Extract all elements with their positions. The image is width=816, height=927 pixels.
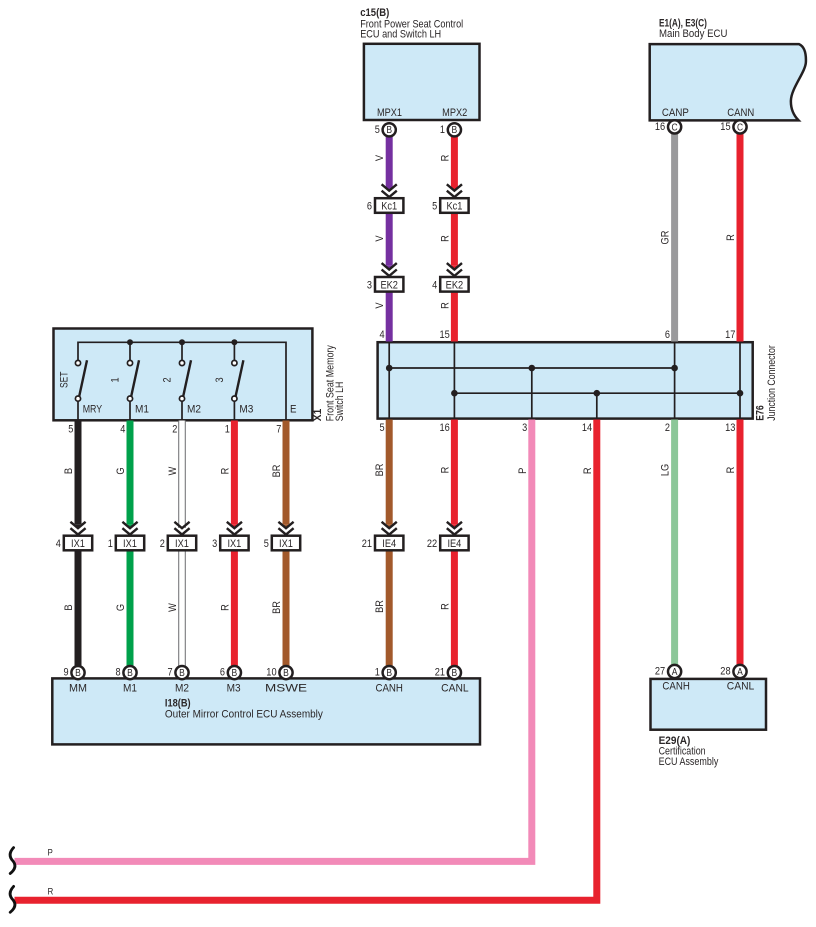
pin label CANH on I18 [375, 683, 403, 695]
label switch 3 vertical [214, 377, 226, 382]
svg-text:CANL: CANL [727, 680, 755, 692]
svg-text:BR: BR [374, 600, 386, 613]
ECU box E29(A) Certification ECU Assembly [651, 679, 767, 730]
wire R MPX2 to Kc1 [451, 131, 458, 192]
wire V Kc1 to EK2 [386, 213, 393, 271]
wire label V at y305.5 [374, 302, 386, 309]
wire label R at y607.5 [219, 604, 231, 611]
junction dot E76 pin3 [529, 365, 536, 372]
wire R Kc1 to EK2 [451, 213, 458, 271]
svg-text:5: 5 [432, 201, 437, 213]
label X1 vertical [312, 409, 324, 422]
ECU box c15(B) Front Power Seat Control ECU and Switch LH [364, 44, 480, 120]
wire B IX1 to I18 pin MM [75, 550, 82, 672]
wire label BR CANH at y607.5 [374, 600, 386, 613]
svg-text:Main Body ECU: Main Body ECU [659, 28, 727, 40]
pin number 14 E76 bottom [582, 422, 592, 434]
svg-text:1: 1 [110, 377, 122, 382]
svg-text:7: 7 [168, 667, 173, 679]
E76 internal vertical pin4-pin5 [388, 343, 390, 418]
wire V EK2 to E76 pin 4 [386, 292, 393, 342]
svg-text:6: 6 [665, 329, 670, 341]
svg-text:IX1: IX1 [279, 538, 293, 550]
pin number 5 E76 bottom [380, 422, 385, 434]
pin label M2 on X1 [187, 404, 201, 416]
label switch 1 vertical [110, 377, 122, 382]
pin 6 (B) of I18 [220, 666, 241, 679]
junction dot E76 pin16 [451, 390, 458, 397]
svg-text:A: A [672, 667, 678, 678]
svg-text:B: B [63, 604, 75, 610]
wire label R CANL at y607.5 [439, 603, 451, 610]
wire label R long [582, 467, 594, 474]
pin label E on X1 [290, 404, 297, 416]
svg-text:BR: BR [271, 465, 283, 478]
pin 16 (C) of E1 [655, 120, 681, 133]
svg-text:W: W [167, 603, 179, 612]
svg-text:21: 21 [435, 667, 445, 679]
svg-text:27: 27 [655, 666, 665, 678]
E76 internal vertical pin15-pin16 [453, 343, 455, 418]
wire label B at y471 [63, 468, 75, 474]
svg-text:G: G [115, 467, 127, 474]
wire R E76 pin 13 to E29 pin CANL [737, 420, 744, 669]
svg-text:28: 28 [720, 666, 730, 678]
svg-text:M2: M2 [175, 683, 189, 695]
label c15(B) title [360, 7, 463, 41]
svg-text:B: B [63, 468, 75, 474]
svg-text:15: 15 [440, 329, 450, 341]
switch 1 [127, 342, 139, 419]
pin number 1 X1 [225, 423, 230, 435]
wire LG E76 pin 2 to E29 pin CANH [671, 420, 678, 669]
label SET vertical [58, 371, 70, 388]
pin label MPX1 [377, 107, 402, 119]
svg-text:1: 1 [225, 423, 230, 435]
pin number 13 E76 bottom [725, 422, 735, 434]
svg-text:5: 5 [375, 124, 380, 136]
svg-text:ECU and Switch LH: ECU and Switch LH [360, 29, 441, 41]
E76 internal bus CANL [454, 392, 740, 394]
svg-text:V: V [374, 154, 386, 161]
svg-text:V: V [374, 302, 386, 309]
label Junction Connector vertical [766, 345, 778, 421]
label E1(A), E3(C) title [659, 17, 727, 40]
wire R EK2 to E76 pin 15 [451, 292, 458, 342]
connector EK2 pin 3 [367, 277, 404, 292]
connector IX1 pin 1 [108, 536, 144, 551]
label E76 vertical [755, 405, 767, 421]
pin label M3 on X1 [239, 404, 253, 416]
junction dot above switch 2 [179, 339, 185, 345]
wire label R CANN [725, 234, 737, 241]
pin label M2 on I18 [175, 683, 189, 695]
arrow into IX1 on wire BR [278, 522, 293, 536]
wire R IX1 to I18 pin M3 [231, 550, 238, 672]
wire label G at y471 [115, 467, 127, 474]
E76 internal vertical pin17-pin13 [739, 343, 741, 418]
svg-text:R: R [439, 302, 451, 309]
svg-text:MPX2: MPX2 [442, 107, 467, 119]
svg-text:IX1: IX1 [123, 538, 137, 550]
svg-text:C: C [737, 122, 743, 133]
ECU box E1(A) E3(C) Main Body ECU with torn right edge [650, 44, 806, 120]
svg-text:5: 5 [68, 423, 73, 435]
junction dot above switch 1 [127, 339, 133, 345]
pin 15 (C) of E1 [720, 120, 746, 133]
wire GR CANP to E76 pin 6 [671, 128, 678, 342]
svg-text:CANH: CANH [375, 683, 403, 695]
arrow into IE4 right [447, 522, 462, 536]
svg-text:16: 16 [440, 422, 450, 434]
svg-text:M3: M3 [239, 404, 253, 416]
pin label CANH on E29 [662, 680, 690, 692]
pin 10 (B) of I18 [266, 666, 292, 679]
svg-text:M1: M1 [135, 404, 149, 416]
connector IX1 pin 4 [56, 536, 93, 551]
svg-text:R: R [439, 235, 451, 242]
wire G IX1 to I18 pin M1 [127, 550, 134, 672]
pin 21 (B) of I18 CANL [435, 666, 461, 679]
connector Kc1 pin 6 [367, 198, 404, 213]
switch SET [75, 360, 87, 419]
svg-text:CANP: CANP [662, 107, 689, 119]
pin label M1 on X1 [135, 404, 149, 416]
svg-text:15: 15 [720, 121, 730, 133]
svg-text:Kc1: Kc1 [381, 201, 397, 213]
wire label W at y471 [167, 466, 179, 475]
svg-text:R: R [439, 467, 451, 474]
junction dot E76 pin4 [386, 365, 393, 372]
svg-text:22: 22 [427, 538, 437, 550]
svg-text:Kc1: Kc1 [446, 201, 462, 213]
svg-text:LG: LG [660, 464, 672, 476]
wire label R at y238.5 [439, 235, 451, 242]
pin label CANN [727, 107, 754, 119]
pin 1 (B) of c15 [440, 123, 461, 136]
switch 3 [232, 342, 244, 419]
pin 5 (B) of c15 [375, 123, 396, 136]
label E29(A) title [659, 735, 719, 768]
pin number 5 X1 [68, 423, 73, 435]
svg-text:R: R [439, 603, 451, 610]
svg-text:8: 8 [116, 667, 121, 679]
junction dot above switch 3 [231, 339, 237, 345]
wire label P [517, 468, 529, 474]
svg-text:2: 2 [162, 377, 174, 382]
svg-text:1: 1 [108, 538, 113, 550]
wire R IE4 to I18 pin CANL [451, 550, 458, 672]
svg-text:MRY: MRY [83, 404, 103, 416]
arrow into EK2 right [447, 263, 462, 277]
pin label MSWE [265, 683, 307, 695]
svg-text:MSWE: MSWE [265, 683, 307, 695]
ECU box I18(B) Outer Mirror Control ECU Assembly [52, 678, 480, 744]
svg-text:M2: M2 [187, 404, 201, 416]
svg-text:P: P [517, 468, 529, 474]
break symbol on wire P [10, 848, 15, 874]
svg-text:2: 2 [172, 423, 177, 435]
E76 internal bus CANH [389, 367, 674, 369]
pin label CANP [662, 107, 689, 119]
pin number 16 E76 bottom [440, 422, 450, 434]
svg-text:Junction Connector: Junction Connector [766, 345, 778, 421]
pin label M3 on I18 [227, 683, 241, 695]
pin number 2 X1 [172, 423, 177, 435]
connector IX1 pin 3 [212, 536, 249, 551]
svg-text:EK2: EK2 [380, 279, 398, 291]
pin number 17 E76 top [725, 329, 735, 341]
wire label R at y305.5 [439, 302, 451, 309]
wire R E76 pin 16 to IE4 [451, 420, 458, 530]
svg-text:M1: M1 [123, 683, 137, 695]
wire label B at y607.5 [63, 604, 75, 610]
svg-text:5: 5 [264, 538, 269, 550]
svg-text:V: V [374, 235, 386, 242]
svg-text:R: R [725, 234, 737, 241]
connector Kc1 pin 5 [432, 198, 469, 213]
X1 internal bus wire [78, 342, 286, 419]
svg-text:6: 6 [367, 201, 372, 213]
svg-text:1: 1 [440, 124, 445, 136]
pin number 6 E76 top [665, 329, 670, 341]
svg-text:MPX1: MPX1 [377, 107, 402, 119]
svg-text:R: R [219, 468, 231, 475]
connector IE4 pin 22 [427, 536, 469, 551]
svg-text:14: 14 [582, 422, 592, 434]
svg-text:3: 3 [367, 279, 372, 291]
pin number 4 E76 top [380, 329, 385, 341]
svg-text:B: B [127, 668, 133, 679]
wire P E76 pin 3 run to left edge [15, 420, 532, 862]
svg-text:IX1: IX1 [227, 538, 241, 550]
svg-text:CANH: CANH [662, 680, 690, 692]
wire label GR [660, 231, 672, 245]
svg-text:CANL: CANL [441, 683, 469, 695]
svg-text:3: 3 [212, 538, 217, 550]
svg-text:1: 1 [375, 667, 380, 679]
pin label MPX2 [442, 107, 467, 119]
wire label R horizontal [48, 887, 54, 898]
svg-text:c15(B): c15(B) [360, 7, 389, 19]
svg-text:5: 5 [380, 422, 385, 434]
label switch 2 vertical [162, 377, 174, 382]
pin number 3 E76 bottom [522, 422, 527, 434]
svg-text:B: B [179, 668, 185, 679]
break symbol on wire R [10, 886, 15, 912]
wire label BR CANH at y471 [374, 464, 386, 477]
svg-text:B: B [75, 668, 81, 679]
wire R CANN to E76 pin 17 [737, 128, 744, 342]
svg-text:E76: E76 [755, 405, 767, 421]
svg-text:SET: SET [58, 371, 70, 388]
svg-text:BR: BR [271, 601, 283, 614]
E76 internal vertical to pin3 [531, 368, 533, 418]
wire W M2 to IX1 [179, 421, 186, 529]
arrow into IX1 on wire W [174, 522, 189, 536]
svg-text:P: P [48, 847, 53, 858]
svg-text:Outer Mirror Control ECU Assem: Outer Mirror Control ECU Assembly [165, 709, 323, 721]
connector IX1 pin 5 [264, 536, 301, 551]
svg-text:4: 4 [432, 279, 437, 291]
wire label BR at y607.5 [271, 601, 283, 614]
wire B MRY to IX1 [75, 421, 82, 530]
svg-text:B: B [452, 668, 458, 679]
svg-text:3: 3 [522, 422, 527, 434]
svg-text:ECU Assembly: ECU Assembly [659, 756, 719, 768]
svg-text:CANN: CANN [727, 107, 754, 119]
svg-text:21: 21 [362, 538, 372, 550]
wire R E76 pin 14 run to left edge [15, 420, 597, 901]
wire BR IX1 to I18 pin MSWE [283, 550, 290, 672]
svg-text:A: A [737, 667, 743, 678]
pin number 15 E76 top [440, 329, 450, 341]
svg-text:I18(B): I18(B) [165, 697, 191, 709]
connector IX1 pin 2 [160, 536, 197, 551]
label I18(B) title [165, 697, 323, 720]
pin 7 (B) of I18 [168, 666, 189, 679]
junction dot E76 pin6 [671, 365, 678, 372]
svg-text:2: 2 [665, 422, 670, 434]
pin 27 (A) of E29 [655, 665, 681, 678]
arrow into Kc1 right [447, 184, 462, 198]
svg-text:R: R [48, 887, 54, 898]
svg-text:GR: GR [660, 231, 672, 245]
svg-text:IE4: IE4 [447, 538, 461, 550]
svg-text:10: 10 [266, 667, 276, 679]
svg-text:B: B [386, 125, 392, 136]
wire BR E to IX1 [283, 421, 290, 530]
svg-text:MM: MM [69, 683, 87, 695]
E76 internal vertical pin6-pin2 [674, 343, 676, 418]
label Switch LH vertical [334, 382, 346, 422]
svg-text:EK2: EK2 [446, 279, 464, 291]
svg-text:IX1: IX1 [175, 538, 189, 550]
svg-text:7: 7 [276, 423, 281, 435]
pin label MRY [83, 404, 103, 416]
svg-text:M3: M3 [227, 683, 241, 695]
svg-text:Switch LH: Switch LH [334, 382, 346, 422]
svg-text:13: 13 [725, 422, 735, 434]
svg-text:IE4: IE4 [382, 538, 396, 550]
svg-text:4: 4 [56, 538, 61, 550]
pin 28 (A) of E29 [720, 665, 746, 678]
wire W IX1 to I18 pin M2 [179, 550, 186, 668]
pin number 4 X1 [120, 423, 125, 435]
svg-text:B: B [283, 668, 289, 679]
svg-text:R: R [725, 467, 737, 474]
wire label V at y158 [374, 154, 386, 161]
svg-text:2: 2 [160, 538, 165, 550]
arrow into IX1 on wire R [227, 522, 242, 536]
E76 internal vertical to pin14 [596, 393, 598, 418]
svg-text:E: E [290, 404, 297, 416]
svg-text:IX1: IX1 [71, 538, 85, 550]
pin label CANL on I18 [441, 683, 469, 695]
wire label V at y238.5 [374, 235, 386, 242]
svg-text:6: 6 [220, 667, 225, 679]
wire G M1 to IX1 [127, 421, 134, 530]
connector IE4 pin 21 [362, 536, 404, 551]
pin label CANL on E29 [727, 680, 755, 692]
pin number 2 E76 bottom [665, 422, 670, 434]
svg-text:G: G [115, 604, 127, 611]
wire label W at y607.5 [167, 603, 179, 612]
switch box X1 Front Seat Memory Switch LH [54, 329, 313, 421]
svg-text:9: 9 [64, 667, 69, 679]
wire label R at y471 [219, 468, 231, 475]
arrow into IX1 on wire G [122, 522, 137, 536]
svg-text:W: W [167, 466, 179, 475]
pin number 7 X1 [276, 423, 281, 435]
svg-text:C: C [672, 122, 678, 133]
svg-text:4: 4 [120, 423, 125, 435]
wire label G at y607.5 [115, 604, 127, 611]
svg-text:R: R [219, 604, 231, 611]
switch 2 [179, 342, 191, 419]
junction connector box E76 [378, 342, 753, 418]
wire V MPX1 to Kc1 [386, 131, 393, 192]
svg-text:17: 17 [725, 329, 735, 341]
pin 1 (B) of I18 CANH [375, 666, 396, 679]
pin label M1 on I18 [123, 683, 137, 695]
arrow into Kc1 left [382, 184, 397, 198]
svg-text:3: 3 [214, 377, 226, 382]
svg-text:B: B [386, 668, 392, 679]
wire label R CANL at y471 [439, 467, 451, 474]
wire BR IE4 to I18 pin CANH [386, 550, 393, 672]
svg-text:X1: X1 [312, 409, 324, 422]
junction dot E76 pin14 [594, 390, 601, 397]
pin label MM [69, 683, 87, 695]
svg-text:R: R [582, 467, 594, 474]
wire R M3 to IX1 [231, 421, 238, 530]
svg-text:4: 4 [380, 329, 385, 341]
junction dot E76 pin13 [737, 390, 744, 397]
svg-text:R: R [439, 155, 451, 162]
arrow into EK2 left [382, 263, 397, 277]
pin 8 (B) of I18 [116, 666, 137, 679]
wire label R at y158 [439, 155, 451, 162]
arrow into IX1 on wire B [70, 522, 85, 536]
wire BR E76 pin 5 to IE4 [386, 420, 393, 530]
svg-text:B: B [232, 668, 238, 679]
svg-text:B: B [452, 125, 458, 136]
wire label R to E29 [725, 467, 737, 474]
svg-text:BR: BR [374, 464, 386, 477]
wire label P horizontal [48, 847, 53, 858]
svg-text:16: 16 [655, 121, 665, 133]
connector EK2 pin 4 [432, 277, 469, 292]
arrow into IE4 left [382, 522, 397, 536]
label Front Seat Memory vertical [325, 345, 337, 421]
pin 9 (B) of I18 [64, 666, 85, 679]
wire label LG [660, 464, 672, 476]
wire label BR at y471 [271, 465, 283, 478]
